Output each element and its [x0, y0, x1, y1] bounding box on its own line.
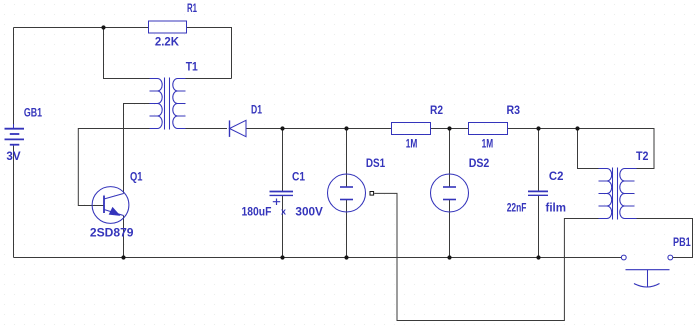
junction node Q1 emitter rail: [121, 255, 125, 259]
wire battery top to R1: [14, 27, 149, 29]
wire T2 primary top branch: [578, 129, 599, 169]
svg-text:1M: 1M: [406, 137, 418, 151]
svg-text:300V: 300V: [295, 205, 323, 219]
svg-text:DS1: DS1: [366, 156, 386, 170]
svg-text:GB1: GB1: [24, 106, 42, 120]
DS1 trigger terminal square: [370, 192, 374, 196]
wire DS1 bottom: [346, 200, 348, 258]
junction node C2 top: [536, 126, 540, 130]
wire C1 bottom: [282, 196, 284, 258]
resistor R3: [469, 123, 508, 135]
svg-text:T2: T2: [636, 149, 649, 163]
junction node DS2 bottom rail: [447, 255, 451, 259]
svg-text:C1: C1: [292, 169, 305, 183]
svg-text:T1: T1: [186, 59, 198, 73]
wire battery positive vertical: [13, 28, 15, 125]
transformer T2: [599, 168, 637, 220]
svg-text:2.2K: 2.2K: [155, 34, 179, 48]
svg-text:22nF: 22nF: [507, 201, 527, 215]
svg-text:x: x: [281, 207, 286, 217]
pushbutton PB1: [621, 255, 672, 287]
svg-text:Q1: Q1: [130, 169, 143, 183]
wire Q1 emitter to rail: [123, 216, 125, 258]
junction node C2 bottom rail: [536, 255, 540, 259]
wire T1 mid tap to Q1 collector: [124, 104, 150, 194]
junction node DS2 top: [447, 126, 451, 130]
battery GB1: [5, 124, 25, 146]
svg-text:D1: D1: [251, 102, 262, 116]
wire bottom ground rail: [14, 257, 622, 259]
junction node DS1 top: [344, 126, 348, 130]
svg-text:R2: R2: [430, 103, 443, 117]
svg-text:film: film: [546, 201, 567, 215]
wire C2 top: [538, 129, 540, 192]
junction node C1 bottom rail: [280, 255, 284, 259]
wire DS1 trigger to T2 primary bottom: [374, 193, 598, 320]
wire DS2 bottom: [449, 200, 451, 258]
capacitor C1: [270, 192, 294, 206]
junction node battery/R1 top: [101, 25, 105, 29]
wire D1 to R2: [246, 128, 392, 130]
wire junction to T1 primary top: [104, 28, 150, 79]
flash tube DS1: [328, 174, 366, 212]
capacitor C2: [528, 191, 548, 195]
svg-text:R1: R1: [187, 1, 197, 15]
svg-text:C2: C2: [549, 169, 564, 183]
wire T2 secondary bottom to PB1: [637, 219, 693, 258]
transistor Q1: [92, 187, 129, 224]
svg-text:PB1: PB1: [673, 235, 691, 249]
wire DS2 top: [449, 129, 451, 188]
wire C2 bottom: [538, 195, 540, 257]
svg-text:3V: 3V: [6, 149, 20, 163]
wire R3 to top right corner: [508, 129, 655, 169]
wire battery negative vertical: [13, 146, 15, 258]
junction node T2 top: [575, 126, 579, 130]
transformer T1: [150, 78, 186, 130]
wire T1 secondary top stub: [186, 78, 232, 80]
trigger tube DS2: [431, 174, 469, 212]
svg-text:DS2: DS2: [469, 156, 490, 170]
diode D1: [230, 120, 247, 137]
resistor R1: [149, 21, 187, 33]
wire DS1 top: [346, 129, 348, 188]
svg-text:180uF: 180uF: [242, 205, 272, 219]
resistor R2: [392, 123, 431, 135]
svg-text:2SD879: 2SD879: [90, 225, 134, 239]
wire T1 secondary bottom to D1: [186, 128, 228, 130]
wire T1 primary bottom to Q1 base: [78, 129, 149, 206]
wire R2 to R3: [431, 128, 469, 130]
wire R1 right to corner: [187, 28, 232, 79]
svg-text:R3: R3: [507, 103, 521, 117]
svg-text:1M: 1M: [482, 137, 494, 151]
wire C1 top: [282, 129, 284, 192]
junction node DS1 bottom rail: [344, 255, 348, 259]
junction node C1 top: [280, 126, 284, 130]
